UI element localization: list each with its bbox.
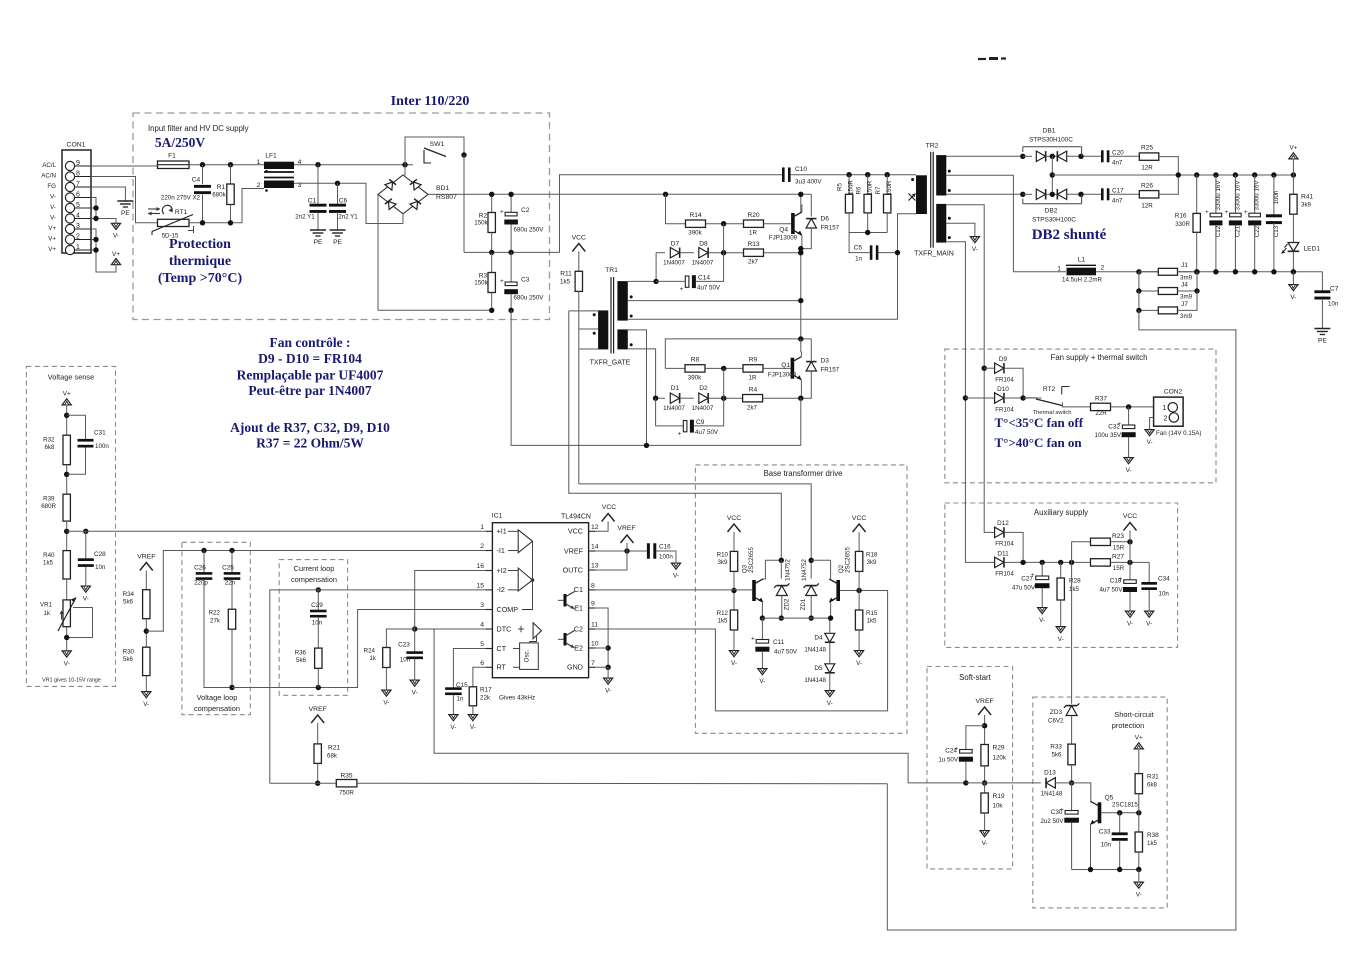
wire D8 to R13 xyxy=(708,252,743,254)
capacitor C20 xyxy=(1101,150,1104,162)
transistor icon 2 (IC1) xyxy=(564,633,567,646)
svg-text:Auxiliary supply: Auxiliary supply xyxy=(1034,508,1088,517)
capacitor C3 xyxy=(510,252,512,282)
svg-text:R22: R22 xyxy=(209,610,221,617)
capacitor C21 xyxy=(1234,175,1236,213)
svg-text:10k: 10k xyxy=(993,803,1004,810)
wire bridge bottom AC xyxy=(402,214,404,224)
svg-text:3k9: 3k9 xyxy=(867,559,878,566)
resistor R9 xyxy=(743,365,763,372)
svg-text:R4: R4 xyxy=(749,387,758,394)
svg-text:V-: V- xyxy=(113,233,119,240)
resistor R30 xyxy=(143,647,150,675)
svg-text:TL494CN: TL494CN xyxy=(561,514,591,521)
svg-text:BD1: BD1 xyxy=(436,185,449,192)
power V- (C11) xyxy=(758,669,767,675)
power V- (CON2) xyxy=(1145,430,1154,436)
svg-text:2: 2 xyxy=(480,543,484,550)
svg-text:D10: D10 xyxy=(997,386,1009,393)
svg-text:100n: 100n xyxy=(659,554,673,561)
svg-text:2u2 50V: 2u2 50V xyxy=(1040,818,1064,825)
svg-text:680u 250V: 680u 250V xyxy=(514,295,545,302)
resistor R5 xyxy=(848,175,850,195)
shunt J7 xyxy=(1139,291,1158,310)
svg-text:R35: R35 xyxy=(340,773,352,780)
wire HV minus line xyxy=(511,310,801,445)
svg-text:C14: C14 xyxy=(698,275,710,282)
zener ZD1 1N4752 xyxy=(810,560,812,578)
svg-text:3m9: 3m9 xyxy=(1180,294,1193,301)
svg-text:C11: C11 xyxy=(773,639,785,646)
power V- (C23) xyxy=(410,680,419,686)
wire HV+ to R14 xyxy=(663,192,668,197)
svg-text:R6: R6 xyxy=(856,186,863,194)
svg-text:3: 3 xyxy=(480,602,484,609)
wire E2 GND stubs xyxy=(595,647,608,649)
wire C2 row loop to Q2 base xyxy=(595,591,887,711)
svg-text:1R: 1R xyxy=(749,230,757,237)
power VREF (pin14) xyxy=(595,550,648,552)
thermal switch RT2 xyxy=(1023,397,1036,399)
svg-text:C21: C21 xyxy=(1235,225,1242,237)
resistor R22 xyxy=(228,609,235,629)
svg-text:FG: FG xyxy=(47,183,56,190)
transistor Q4 FJP13009 xyxy=(791,213,795,234)
svg-text:D4: D4 xyxy=(814,635,823,642)
svg-text:1N4007: 1N4007 xyxy=(663,260,685,267)
wire TR1 left pins xyxy=(569,310,598,312)
svg-text:RT: RT xyxy=(497,663,507,672)
svg-text:V-: V- xyxy=(470,724,476,731)
ground PE (CON1) xyxy=(117,200,133,202)
transistor icon 1 (IC1) xyxy=(564,594,567,607)
svg-text:10n: 10n xyxy=(1101,842,1112,849)
svg-text:VCC: VCC xyxy=(852,515,866,522)
svg-text:1n: 1n xyxy=(457,696,464,703)
svg-text:R40: R40 xyxy=(43,552,55,559)
power V- (VR1) xyxy=(62,651,71,657)
diode D4 1N4148 xyxy=(829,618,831,632)
svg-text:100n: 100n xyxy=(95,443,109,450)
svg-text:1: 1 xyxy=(1057,266,1061,273)
svg-text:ZD1: ZD1 xyxy=(800,598,807,610)
capacitor C34 xyxy=(1148,562,1150,582)
resistor R17 xyxy=(473,667,486,687)
svg-text:J1: J1 xyxy=(1181,262,1188,269)
LED LED1 xyxy=(1288,243,1299,252)
power V- (R17) xyxy=(468,715,477,721)
resistor R40 xyxy=(63,551,70,579)
svg-text:1k5: 1k5 xyxy=(1069,586,1080,593)
power V- (D5) xyxy=(825,691,834,697)
power V- (R28) xyxy=(1056,627,1065,633)
svg-text:R26: R26 xyxy=(1141,183,1153,190)
capacitor C28 xyxy=(85,531,87,558)
capacitor C32 xyxy=(1128,407,1130,425)
capacitor C25 xyxy=(229,548,234,553)
amplifier DTC (IC1) xyxy=(518,628,524,630)
svg-text:220p: 220p xyxy=(194,580,208,587)
power V+ (sense) xyxy=(62,399,71,405)
svg-text:C23: C23 xyxy=(398,642,410,649)
wire D2 to R4 xyxy=(708,397,742,399)
svg-text:C6: C6 xyxy=(339,198,348,205)
svg-text:RT2: RT2 xyxy=(1043,386,1056,393)
svg-text:R39: R39 xyxy=(43,496,55,503)
shunt J1 xyxy=(1139,271,1158,273)
wire -I2 row xyxy=(270,590,486,783)
svg-text:COMP: COMP xyxy=(497,605,519,614)
bridge rectifier BD1 xyxy=(404,165,406,176)
svg-text:Fan supply + thermal switch: Fan supply + thermal switch xyxy=(1051,353,1148,362)
svg-text:D6: D6 xyxy=(821,216,830,223)
svg-text:R31: R31 xyxy=(1147,774,1159,781)
svg-text:R24: R24 xyxy=(364,648,376,655)
wire Q3 emitter xyxy=(761,602,764,618)
svg-text:E2: E2 xyxy=(574,643,583,652)
diode D12 FR104 xyxy=(995,527,1004,537)
svg-text:RT1: RT1 xyxy=(175,209,188,216)
power V- (C28) xyxy=(81,586,90,592)
svg-text:R19: R19 xyxy=(993,793,1005,800)
svg-text:R37: R37 xyxy=(1095,396,1107,403)
zener ZD2 1N4752 xyxy=(780,560,782,578)
svg-text:C26: C26 xyxy=(194,565,206,572)
power V- (R24) xyxy=(382,690,391,696)
zener ZD3 C6V2 xyxy=(1066,706,1077,716)
resistor R12 xyxy=(730,610,737,630)
svg-text:1n: 1n xyxy=(855,256,862,263)
resistor R13 xyxy=(744,249,764,256)
svg-text:D13: D13 xyxy=(1044,770,1056,777)
wire output V- rail xyxy=(1096,271,1322,273)
svg-text:D2: D2 xyxy=(699,385,708,392)
svg-text:1N4148: 1N4148 xyxy=(1041,791,1063,798)
svg-text:protection: protection xyxy=(1112,721,1144,730)
svg-text:V-: V- xyxy=(1146,621,1152,628)
svg-text:150R: 150R xyxy=(886,180,893,195)
svg-text:V+: V+ xyxy=(112,251,120,258)
svg-text:PE: PE xyxy=(314,239,323,246)
capacitor C14 xyxy=(685,276,689,287)
box Voltage sense xyxy=(26,366,115,686)
svg-text:14.5uH 2.2mR: 14.5uH 2.2mR xyxy=(1062,277,1102,284)
diode D10 FR104 xyxy=(965,397,994,399)
wire HV mid rail xyxy=(464,251,560,253)
svg-text:2: 2 xyxy=(1164,414,1168,423)
svg-text:16: 16 xyxy=(476,563,484,570)
svg-text:CON2: CON2 xyxy=(1164,389,1183,396)
svg-text:22n: 22n xyxy=(225,580,236,587)
resistor R25 xyxy=(1139,153,1159,160)
power V+ (output) xyxy=(1289,153,1298,159)
diode D9 FR104 xyxy=(984,367,994,369)
box Soft-start xyxy=(927,667,1013,869)
svg-text:R14: R14 xyxy=(689,212,701,219)
svg-text:C1: C1 xyxy=(308,198,317,205)
wire LF1 pin3 row xyxy=(294,183,403,223)
resistor R19 xyxy=(984,783,986,793)
resistor R37 xyxy=(1091,403,1111,410)
svg-text:V-: V- xyxy=(1290,294,1296,301)
svg-text:D8: D8 xyxy=(699,241,708,248)
svg-text:1k: 1k xyxy=(43,610,50,617)
svg-text:V-: V- xyxy=(50,204,56,211)
resistor R21 xyxy=(314,744,321,764)
svg-text:5k6: 5k6 xyxy=(123,656,134,663)
diode D13 1N4148 xyxy=(1046,778,1055,788)
svg-text:Q5: Q5 xyxy=(1105,795,1114,802)
svg-text:V-: V- xyxy=(83,596,89,603)
svg-text:C22: C22 xyxy=(1254,225,1261,237)
svg-text:C25: C25 xyxy=(222,565,234,572)
diode D7 xyxy=(656,252,665,254)
capacitor C18 xyxy=(1129,562,1131,579)
capacitor C15 xyxy=(453,649,485,688)
svg-text:V-: V- xyxy=(383,700,389,707)
svg-text:2SC1815: 2SC1815 xyxy=(1112,802,1138,809)
svg-text:68k: 68k xyxy=(327,753,338,760)
wire Q4 emitter down xyxy=(801,235,803,249)
wire R4 to Q1 emitter node xyxy=(763,397,801,399)
svg-text:+: + xyxy=(678,431,682,438)
wire bridge minus rail xyxy=(378,194,492,310)
svg-text:VR1 gives 10-15V range: VR1 gives 10-15V range xyxy=(42,678,101,684)
svg-text:150k: 150k xyxy=(474,220,488,227)
svg-text:-I1: -I1 xyxy=(497,546,505,555)
svg-text:J7: J7 xyxy=(1181,301,1188,308)
svg-text:V-: V- xyxy=(731,660,737,667)
svg-text:TXFR_GATE: TXFR_GATE xyxy=(590,360,631,367)
ground PE (C6) xyxy=(330,229,346,231)
svg-text:V+: V+ xyxy=(1135,735,1143,742)
wire C10 to TR2 xyxy=(791,174,916,176)
wire Q4 collector xyxy=(801,205,802,212)
wire TR1 to half-bridge mid xyxy=(628,300,801,302)
wire snubber row xyxy=(849,232,887,234)
diode D2 xyxy=(680,397,694,399)
capacitor C31 xyxy=(67,415,86,439)
capacitor C2 xyxy=(510,194,512,212)
svg-text:2k7: 2k7 xyxy=(748,259,759,266)
svg-text:D9 - D10 = FR104: D9 - D10 = FR104 xyxy=(258,351,362,366)
svg-text:R1: R1 xyxy=(217,184,226,191)
svg-text:RS807: RS807 xyxy=(436,194,457,201)
svg-text:TR2: TR2 xyxy=(926,143,939,150)
svg-text:2: 2 xyxy=(257,182,261,189)
svg-text:15: 15 xyxy=(476,582,484,589)
svg-text:Input filter and HV DC supply: Input filter and HV DC supply xyxy=(148,124,249,133)
svg-text:D7: D7 xyxy=(671,241,680,248)
wire R8 loop top xyxy=(665,339,811,369)
svg-text:R11: R11 xyxy=(560,271,572,278)
svg-text:PE: PE xyxy=(333,239,342,246)
svg-text:8: 8 xyxy=(591,582,595,589)
resistor R2 xyxy=(491,194,493,212)
wire TR2 sec1 bottom to DB2 xyxy=(946,193,1023,195)
svg-text:5k6: 5k6 xyxy=(123,599,134,606)
svg-text:V-: V- xyxy=(1136,892,1142,899)
svg-text:6k8: 6k8 xyxy=(1147,782,1158,789)
svg-text:1k5: 1k5 xyxy=(718,618,729,625)
wire SC bottom row xyxy=(1072,869,1139,871)
wire V- pins bus xyxy=(91,198,116,224)
wire R20 to Q4 base xyxy=(764,223,792,225)
svg-text:4n7: 4n7 xyxy=(1112,160,1123,167)
resistor R3 xyxy=(491,252,493,272)
svg-text:C9: C9 xyxy=(696,419,705,426)
svg-text:FR104: FR104 xyxy=(995,571,1014,578)
svg-text:22k: 22k xyxy=(480,695,491,702)
svg-text:Q1: Q1 xyxy=(781,362,790,369)
wire D13 node to Q5 collector xyxy=(1072,783,1091,803)
svg-text:5D-15: 5D-15 xyxy=(162,233,179,240)
capacitor C9 xyxy=(656,398,684,426)
shunt J4 xyxy=(1139,272,1158,291)
svg-text:R41: R41 xyxy=(1301,194,1313,201)
svg-text:Short-circuit: Short-circuit xyxy=(1114,710,1153,719)
svg-text:5k6: 5k6 xyxy=(1052,752,1063,759)
wire F1 to LF1 xyxy=(189,164,264,166)
svg-text:2n2 Y1: 2n2 Y1 xyxy=(295,214,315,221)
svg-text:C28: C28 xyxy=(94,551,106,558)
svg-text:R38: R38 xyxy=(1147,832,1159,839)
svg-text:V-: V- xyxy=(450,724,456,731)
svg-text:100n: 100n xyxy=(1273,190,1280,204)
svg-text:D11: D11 xyxy=(997,551,1009,558)
power V- (TR2 tap) xyxy=(970,237,979,243)
wire Q5 base row xyxy=(1101,812,1139,814)
svg-text:C2: C2 xyxy=(521,207,530,214)
wire Q2 emitter xyxy=(829,602,830,618)
svg-text:FR157: FR157 xyxy=(821,225,840,232)
potentiometer VR1 xyxy=(63,600,70,627)
box Base transformer drive xyxy=(695,465,907,733)
svg-text:V-: V- xyxy=(972,246,978,253)
svg-text:5A/250V: 5A/250V xyxy=(155,135,206,150)
diode D3 FR157 xyxy=(806,362,816,371)
svg-text:OUTC: OUTC xyxy=(563,565,583,574)
box Fan supply + thermal switch xyxy=(945,349,1216,483)
svg-text:R17: R17 xyxy=(480,687,492,694)
svg-text:V-: V- xyxy=(1126,467,1132,474)
page mark xyxy=(978,58,986,60)
svg-text:AC/N: AC/N xyxy=(41,173,56,180)
transistor Q3 2SC2655 xyxy=(752,580,756,601)
resistor R26 xyxy=(1139,191,1159,198)
svg-text:C32: C32 xyxy=(1108,424,1120,431)
resistor R7 xyxy=(886,175,888,195)
svg-text:C12: C12 xyxy=(1215,225,1222,237)
power V- (R15) xyxy=(855,651,864,657)
svg-text:V-: V- xyxy=(827,700,833,707)
box Voltage loop compensation xyxy=(182,542,250,714)
svg-text:3k9: 3k9 xyxy=(1301,202,1312,209)
wire HV minus to node xyxy=(489,308,494,313)
svg-text:V-: V- xyxy=(1039,617,1045,624)
svg-text:STPS30H100C: STPS30H100C xyxy=(1032,217,1076,224)
wire TR2 sec1 top to DB1 xyxy=(946,155,1023,157)
svg-text:R9: R9 xyxy=(749,357,758,364)
svg-text:DB2 shunté: DB2 shunté xyxy=(1032,227,1107,243)
svg-text:ZD3: ZD3 xyxy=(1050,709,1063,716)
resistor R20 xyxy=(744,220,764,227)
svg-text:Peut-être par 1N4007: Peut-être par 1N4007 xyxy=(248,383,371,398)
svg-text:47u 50V: 47u 50V xyxy=(1012,585,1036,592)
capacitor C17 xyxy=(1101,188,1104,200)
svg-text:680R: 680R xyxy=(41,503,56,510)
svg-text:R25: R25 xyxy=(1141,145,1153,152)
svg-text:IC1: IC1 xyxy=(492,513,503,520)
svg-text:Gives 43kHz: Gives 43kHz xyxy=(499,695,535,702)
power V+ (R31) xyxy=(1134,743,1143,749)
svg-text:D9: D9 xyxy=(999,356,1008,363)
svg-text:R28: R28 xyxy=(1069,578,1081,585)
svg-text:V-: V- xyxy=(673,573,679,580)
svg-text:1N4007: 1N4007 xyxy=(692,260,714,267)
svg-text:C33: C33 xyxy=(1099,829,1111,836)
box Input filter and HV DC supply xyxy=(133,113,550,320)
diode D1 xyxy=(656,397,665,399)
svg-text:C29: C29 xyxy=(311,602,323,609)
svg-text:C16: C16 xyxy=(659,544,671,551)
svg-text:V-: V- xyxy=(1127,621,1133,628)
svg-text:R10: R10 xyxy=(717,552,729,559)
svg-text:10: 10 xyxy=(591,641,599,648)
dual diode DB1 STPS30H100C xyxy=(1020,154,1025,159)
svg-text:4u7 50V: 4u7 50V xyxy=(774,649,798,656)
svg-text:TR1: TR1 xyxy=(605,267,618,274)
wire TR1 left to ZD2 xyxy=(569,311,782,560)
capacitor C13 xyxy=(1273,175,1275,215)
resistor R18 xyxy=(855,551,862,571)
svg-text:D3: D3 xyxy=(821,358,830,365)
svg-text:R8: R8 xyxy=(691,357,700,364)
capacitor C29 xyxy=(316,587,321,592)
resistor R1 xyxy=(230,165,232,184)
wire VR1 wiper xyxy=(67,608,93,638)
resistor R27 xyxy=(1091,559,1111,566)
svg-text:R7: R7 xyxy=(875,186,882,194)
svg-text:R33: R33 xyxy=(1050,744,1062,751)
svg-text:4u7 50V: 4u7 50V xyxy=(695,429,719,436)
svg-text:R16: R16 xyxy=(1175,213,1187,220)
svg-text:6k8: 6k8 xyxy=(45,444,56,451)
svg-text:C20: C20 xyxy=(1112,150,1124,157)
svg-text:C17: C17 xyxy=(1112,188,1124,195)
svg-text:390k: 390k xyxy=(688,375,702,382)
svg-text:Inter 110/220: Inter 110/220 xyxy=(391,94,470,109)
svg-text:120k: 120k xyxy=(993,755,1007,762)
svg-text:R18: R18 xyxy=(866,552,878,559)
svg-text:2: 2 xyxy=(1101,265,1105,272)
svg-text:Thermal switch: Thermal switch xyxy=(1033,410,1072,416)
resistor R39 xyxy=(63,494,70,521)
wire soft-start node to D13 xyxy=(966,782,1041,784)
svg-text:V+: V+ xyxy=(48,225,56,232)
svg-text:R36: R36 xyxy=(295,650,307,657)
svg-text:R3: R3 xyxy=(479,273,488,280)
svg-text:2SC2655: 2SC2655 xyxy=(845,547,852,573)
svg-text:Current loop: Current loop xyxy=(294,564,335,573)
wire comparator outputs to COMP xyxy=(522,541,533,609)
svg-text:V-: V- xyxy=(856,660,862,667)
svg-text:14: 14 xyxy=(591,544,599,551)
svg-text:Fan contrôle :: Fan contrôle : xyxy=(270,335,351,350)
resistor R38 xyxy=(1138,813,1140,832)
wire CON2 pin2 to V- xyxy=(1150,418,1154,430)
inductor LF1 common mode choke xyxy=(264,162,294,169)
